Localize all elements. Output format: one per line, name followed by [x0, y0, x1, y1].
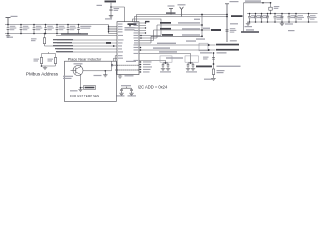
AVS sense chain — [213, 53, 215, 69]
ground U1 bottom — [119, 75, 121, 77]
capacitor C12 — [212, 58, 215, 59]
input rail bottom — [5, 33, 81, 35]
wire RST2 y36.3 — [140, 36, 203, 43]
power flag VIN top-left — [6, 18, 11, 25]
net label arrow RST — [211, 29, 221, 31]
Place Near Inductor box — [65, 61, 117, 101]
capacitor C26 — [288, 14, 291, 23]
filter box on AVS pair — [199, 43, 208, 51]
capacitor C1 — [7, 25, 10, 34]
svg-text:PMbus Address: PMbus Address — [26, 72, 59, 77]
net label VOSNS N — [216, 49, 239, 51]
capacitor C8 bypass — [110, 7, 113, 16]
U1 PGND pad row 2 — [116, 69, 139, 71]
wire row 3 SCL — [45, 45, 118, 47]
ground output rail left — [247, 22, 249, 24]
wire into box right — [111, 61, 113, 71]
U1 bottom-left pins to sensor box — [114, 56, 118, 62]
wire V5 — [111, 3, 125, 22]
svg-text:I2C ADD = 0x24: I2C ADD = 0x24 — [138, 85, 168, 90]
resistor R3 addr top — [44, 33, 46, 35]
ground output rail mid — [281, 22, 283, 23]
wire loop y19 — [133, 19, 162, 36]
U1 right lower pin stubs with labels — [139, 62, 142, 72]
wire AVS pair 2 y50 — [139, 49, 216, 51]
wire loop inner y16.5 — [135, 17, 228, 22]
svg-text:FOR GST TEMP SEN: FOR GST TEMP SEN — [70, 94, 99, 98]
wire row 4 SDA — [57, 48, 117, 50]
power symbol VDD top — [180, 7, 184, 17]
capacitor C9 on V5A — [226, 30, 229, 31]
U1 right pin name texts — [134, 22, 139, 61]
ground PMBus — [43, 68, 47, 70]
wire row 1 — [57, 39, 117, 41]
wire row 5 SMBALERT — [57, 51, 117, 53]
svg-text:Place Near Inductor: Place Near Inductor — [68, 57, 102, 61]
capacitor C2 — [20, 25, 23, 34]
capacitor C5 — [56, 25, 59, 34]
ferrite bead FB1 — [269, 7, 272, 10]
output rail bottom — [247, 21, 318, 23]
wire VIN sense — [56, 35, 117, 37]
node TSNS dot — [80, 87, 82, 89]
ground input rail — [6, 36, 10, 38]
module U1 box — [117, 22, 139, 75]
wire GFB y25 — [140, 25, 203, 38]
node V5 label top — [105, 1, 117, 3]
U1 right upper stub pins — [140, 23, 147, 33]
capacitor C24 — [274, 14, 277, 23]
capacitor C4 — [44, 25, 47, 34]
capacitor C22 — [260, 14, 263, 23]
pin label near bus — [194, 19, 200, 20]
capacitor C6 — [67, 25, 70, 34]
net label VOSNS P — [216, 44, 239, 46]
capacitor C23 — [266, 14, 269, 23]
wire AVS pair 1 y45 — [139, 44, 216, 46]
small text right — [288, 30, 295, 31]
input rail top — [5, 24, 109, 26]
wires PMBus resistors — [42, 52, 56, 68]
wire BOOT y53.5 — [139, 54, 191, 64]
capacitor C27 — [295, 14, 298, 23]
U1 right pin dots — [140, 35, 142, 37]
wire RST1 y30 — [140, 30, 203, 41]
capacitor C3 — [33, 25, 36, 34]
ground TSNS — [80, 88, 82, 90]
power symbol V5A right — [225, 4, 229, 42]
top right VOUT sense wire P — [245, 0, 261, 1]
RC pair 1 — [165, 62, 167, 64]
U1 PGND pad row 1 — [114, 64, 139, 66]
dot and ground on Q1 collector wire — [104, 70, 106, 72]
capacitor C7 — [77, 25, 80, 34]
U1 left pin name texts — [118, 24, 124, 59]
net label sense N — [241, 31, 259, 33]
DNI box RC2 — [185, 56, 199, 62]
net tie labels — [196, 66, 212, 68]
net stub label right of C9 — [246, 29, 254, 30]
resistor R2 PMBus — [54, 58, 56, 64]
wire PH y60.5 — [139, 61, 166, 64]
wire VOUT sense N vertical — [243, 3, 245, 32]
capacitor C21 — [254, 14, 257, 23]
vertical bus right join — [202, 15, 211, 37]
power symbol PVCC top — [169, 9, 173, 15]
U1 part number text — [128, 23, 137, 25]
capacitor C20 — [248, 14, 251, 23]
inline value label — [231, 15, 243, 17]
output rail top — [247, 13, 318, 15]
net label Vin Reg Sense — [61, 33, 88, 35]
resistor R5 below net tie — [212, 69, 214, 75]
capacitor C28 — [307, 14, 310, 23]
wire row 2 — [57, 42, 117, 44]
RC pair 2 — [190, 62, 192, 64]
wire loop outer y14.5 — [137, 15, 228, 22]
boxed net label TSNS — [84, 86, 96, 90]
resistor R1 PMBus — [40, 58, 42, 64]
U1 left VIN pin stubs — [109, 25, 118, 34]
transistor Q1 — [73, 66, 83, 76]
ground C8 — [109, 16, 113, 18]
thermistor D1 bottom center — [121, 85, 131, 86]
DNI box RC1 — [160, 56, 172, 62]
capacitor C25 — [281, 14, 284, 23]
